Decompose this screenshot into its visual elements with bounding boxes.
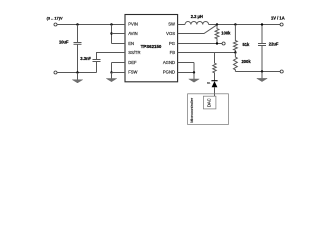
wire AVIN/EN vertical — [111, 25, 113, 44]
wire EN — [112, 43, 126, 45]
svg-text:100k: 100k — [221, 31, 231, 36]
wire VOS — [178, 25, 217, 34]
junction dot C3 bottom — [261, 70, 263, 72]
wire AGND vertical — [193, 63, 195, 73]
resistor R2 51k — [234, 25, 238, 53]
svg-text:TPS62150: TPS62150 — [141, 44, 162, 49]
wire AVIN — [112, 33, 126, 35]
ground input — [72, 73, 82, 83]
wire AGND — [178, 62, 194, 64]
junction dot AVIN tap — [110, 23, 112, 25]
svg-text:(3 .. 17)V: (3 .. 17)V — [47, 15, 63, 20]
svg-text:51k: 51k — [243, 42, 251, 47]
wire VIN- rail — [57, 72, 96, 74]
resistor R4 DAC injection — [213, 63, 216, 81]
svg-text:1V / 1A: 1V / 1A — [271, 15, 285, 20]
svg-text:PVIN: PVIN — [128, 22, 138, 27]
wire SW — [178, 24, 185, 26]
svg-text:AVIN: AVIN — [128, 31, 137, 36]
ground DEF/FSW — [106, 73, 116, 82]
junction dot R2 top — [234, 23, 236, 25]
junction dot PGND — [193, 71, 195, 73]
wire DEF/FSW vertical — [111, 63, 113, 73]
svg-text:200k: 200k — [242, 59, 252, 64]
junction dot PG node — [216, 42, 218, 44]
ground output — [257, 72, 267, 82]
microcontroller box — [188, 94, 229, 125]
wire VOUT- rail — [235, 71, 280, 73]
svg-text:EN: EN — [128, 41, 134, 46]
svg-text:VOS: VOS — [166, 31, 175, 36]
svg-text:SS/TR: SS/TR — [128, 50, 140, 55]
capacitor C3 22uF — [258, 25, 266, 72]
wire FSW — [112, 72, 126, 74]
DAC box — [203, 96, 216, 109]
svg-text:FSW: FSW — [128, 70, 137, 75]
node PG terminal — [222, 42, 225, 45]
junction dot C1 tap — [76, 23, 78, 25]
svg-text:AGND: AGND — [163, 60, 175, 65]
node VOUT- terminal — [280, 70, 283, 73]
wire DEF — [112, 62, 126, 64]
svg-text:3.3nF: 3.3nF — [80, 56, 91, 61]
inductor L1 2.2uH — [185, 22, 209, 25]
svg-text:22uF: 22uF — [269, 42, 279, 47]
ground AGND/PGND — [189, 73, 199, 83]
diode D1 — [211, 81, 217, 97]
wire FB tap vertical — [214, 53, 216, 64]
wire FB — [178, 52, 236, 54]
svg-text:FB: FB — [170, 50, 176, 55]
junction dot FB node — [234, 51, 236, 53]
svg-text:B1: B1 — [207, 81, 211, 85]
svg-text:PG: PG — [169, 41, 175, 46]
resistor R3 200k — [234, 53, 238, 72]
svg-text:DAC: DAC — [206, 98, 211, 107]
node VOUT+ terminal — [280, 23, 283, 26]
svg-text:2.2 µH: 2.2 µH — [191, 14, 203, 19]
svg-text:Microcontroller: Microcontroller — [190, 97, 194, 123]
junction dot input ground — [76, 71, 78, 73]
node VIN- input terminal — [54, 71, 57, 74]
wire PG — [178, 43, 223, 45]
wire VIN to PVIN — [57, 24, 125, 26]
resistor R1 100k — [215, 25, 219, 44]
svg-text:10uF: 10uF — [59, 39, 69, 44]
capacitor C2 3.3nF — [93, 53, 126, 73]
wire VOUT rail — [209, 24, 280, 26]
junction dot C3 top — [261, 23, 263, 25]
junction dot AVIN — [110, 32, 112, 34]
junction dot SW node — [216, 23, 218, 25]
svg-text:DEF: DEF — [128, 60, 137, 65]
node VIN+ input terminal — [54, 23, 57, 26]
capacitor C1 10uF — [74, 25, 82, 73]
wire PGND — [178, 72, 194, 74]
svg-text:PGND: PGND — [163, 70, 175, 75]
op-amp U1 TPS62150 IC body — [125, 15, 178, 82]
junction dot FSW — [110, 71, 112, 73]
svg-text:SW: SW — [168, 22, 175, 27]
